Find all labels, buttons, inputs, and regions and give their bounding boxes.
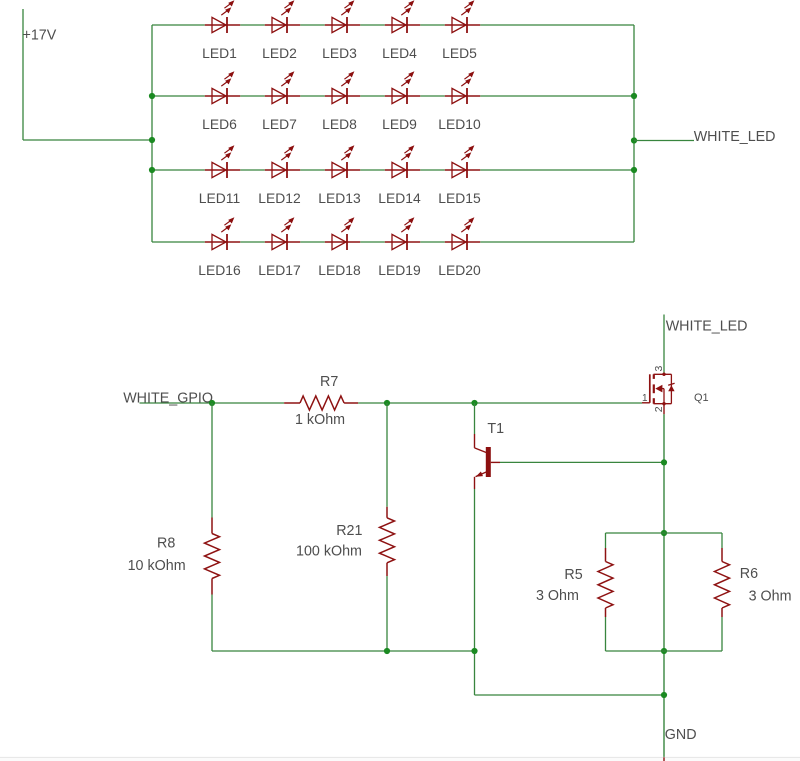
LED LED19 <box>385 217 420 250</box>
junction gate line/T1 collector <box>471 400 477 406</box>
wire GND below edge <box>663 757 665 761</box>
wire R6 top lead <box>721 533 723 548</box>
wire row 2 gap 4 <box>420 95 445 97</box>
svg-text:2: 2 <box>653 406 665 412</box>
junction left bus row3 <box>149 167 155 173</box>
bottom window edge <box>0 758 800 761</box>
wire row 1 gap 3 <box>360 24 385 26</box>
resistor R6 <box>721 548 723 617</box>
resistor R5 <box>605 548 607 617</box>
resistor R7 <box>284 402 358 404</box>
svg-text:Q1: Q1 <box>694 392 709 404</box>
resistor R5 body <box>598 562 613 609</box>
svg-text:LED8: LED8 <box>322 116 357 132</box>
svg-text:LED19: LED19 <box>378 262 421 278</box>
wire R8 bottom <box>211 595 213 652</box>
LED LED10 <box>445 71 480 104</box>
wire bottom rail left <box>212 650 475 652</box>
svg-text:LED17: LED17 <box>258 262 301 278</box>
junction left bus row2 <box>149 93 155 99</box>
svg-text:R8: R8 <box>157 535 175 551</box>
wire row 2 gap 3 <box>360 95 385 97</box>
wire row 1 gap 4 <box>420 24 445 26</box>
junction GND node <box>661 692 667 698</box>
svg-text:1 kOhm: 1 kOhm <box>295 412 345 428</box>
svg-text:LED1: LED1 <box>202 45 237 61</box>
LED LED3 <box>325 0 360 33</box>
resistor R8 body <box>205 534 220 579</box>
svg-text:WHITE_LED: WHITE_LED <box>694 129 776 145</box>
LED LED1 <box>205 0 240 33</box>
wire emitter to GND node <box>475 694 665 696</box>
wire row 2 gap 1 <box>240 95 265 97</box>
resistor R7 body <box>300 396 344 410</box>
wire row 4 gap 2 <box>300 241 325 243</box>
wire Q1 source down to GND <box>663 404 665 415</box>
wire WHITE_LED to Q1 drain <box>663 315 665 373</box>
wire row 3 gap 1 <box>240 169 265 171</box>
wire R6 bottom lead <box>721 617 723 651</box>
LED LED13 <box>325 145 360 178</box>
svg-text:LED4: LED4 <box>382 45 417 61</box>
wire WHITE_LED stub <box>634 140 694 142</box>
transistor Q1 (P-MOSFET) <box>642 373 675 406</box>
svg-text:LED16: LED16 <box>198 262 241 278</box>
wire T1 base to sense node <box>500 461 664 463</box>
junction sense node <box>661 459 667 465</box>
LED LED15 <box>445 145 480 178</box>
svg-text:LED11: LED11 <box>199 190 241 206</box>
wire R5 bottom lead <box>605 617 607 651</box>
svg-text:3: 3 <box>653 366 665 372</box>
svg-text:T1: T1 <box>487 421 504 437</box>
LED LED4 <box>385 0 420 33</box>
svg-text:LED6: LED6 <box>202 116 237 132</box>
LED LED17 <box>265 217 300 250</box>
wire row 2 to right bus <box>480 95 634 97</box>
wire R7 to Q1 gate <box>358 402 642 404</box>
svg-text:LED15: LED15 <box>438 190 481 206</box>
wire row 2 from left bus <box>152 95 205 97</box>
svg-text:LED2: LED2 <box>262 45 297 61</box>
wire R5 top lead <box>605 533 607 548</box>
svg-text:R7: R7 <box>320 374 338 390</box>
resistor R8 <box>211 518 213 595</box>
wire row 1 gap 1 <box>240 24 265 26</box>
svg-text:1: 1 <box>642 393 648 404</box>
wire T1 collector <box>474 403 476 434</box>
LED LED18 <box>325 217 360 250</box>
LED LED16 <box>205 217 240 250</box>
wire row 3 to right bus <box>480 169 634 171</box>
wire row 1 gap 2 <box>300 24 325 26</box>
wire row 3 from left bus <box>152 169 205 171</box>
svg-text:R6: R6 <box>740 566 758 582</box>
transistor T1 (NPN) <box>475 434 501 489</box>
svg-text:LED9: LED9 <box>382 116 417 132</box>
svg-text:LED3: LED3 <box>322 45 357 61</box>
svg-text:LED20: LED20 <box>438 262 481 278</box>
svg-text:LED10: LED10 <box>438 116 481 132</box>
svg-text:+17V: +17V <box>23 28 57 44</box>
svg-text:3 Ohm: 3 Ohm <box>536 588 579 604</box>
junction right bus row2 <box>631 93 637 99</box>
wire row 4 from left bus <box>152 241 205 243</box>
junction R5R6 bottom <box>661 648 667 654</box>
junction WHITE_GPIO/R8 <box>209 400 215 406</box>
wire R5R6 top <box>606 532 723 534</box>
svg-text:10 kOhm: 10 kOhm <box>128 558 186 574</box>
wire +17V feed horizontal <box>23 139 152 141</box>
svg-text:3 Ohm: 3 Ohm <box>749 589 792 605</box>
wire R21 top <box>386 403 388 507</box>
wire R8 top <box>211 403 213 518</box>
resistor R21 <box>386 507 388 576</box>
svg-text:R5: R5 <box>564 567 582 583</box>
wire right bus <box>633 25 635 242</box>
LED LED14 <box>385 145 420 178</box>
junction R5R6 top <box>661 530 667 536</box>
junction gate line/R21 <box>384 400 390 406</box>
wire R5R6 bottom <box>606 650 723 652</box>
svg-text:WHITE_LED: WHITE_LED <box>666 319 748 335</box>
wire WHITE_GPIO to R7 <box>140 402 285 404</box>
wire row 4 gap 3 <box>360 241 385 243</box>
wire left bus <box>151 25 153 242</box>
wire row 1 to right bus <box>480 24 634 26</box>
svg-text:LED18: LED18 <box>318 262 361 278</box>
LED LED7 <box>265 71 300 104</box>
junction left bus supply <box>149 137 155 143</box>
svg-text:LED13: LED13 <box>318 190 361 206</box>
wire row 2 gap 2 <box>300 95 325 97</box>
wire row 4 to right bus <box>480 241 634 243</box>
wire row 3 gap 4 <box>420 169 445 171</box>
wire row 3 gap 2 <box>300 169 325 171</box>
junction bottom R21 <box>384 648 390 654</box>
svg-text:LED5: LED5 <box>442 45 477 61</box>
LED LED5 <box>445 0 480 33</box>
LED LED8 <box>325 71 360 104</box>
wire row 1 from left bus <box>152 24 205 26</box>
junction bottom T1 emitter <box>471 648 477 654</box>
LED LED20 <box>445 217 480 250</box>
wire +17V vertical <box>22 9 24 140</box>
svg-text:R21: R21 <box>336 523 362 539</box>
svg-text:WHITE_GPIO: WHITE_GPIO <box>123 391 213 407</box>
LED LED2 <box>265 0 300 33</box>
LED LED11 <box>205 145 240 178</box>
resistor R6 body <box>715 562 730 609</box>
junction right bus WHITE_LED <box>631 137 637 143</box>
wire row 4 gap 1 <box>240 241 265 243</box>
wire row 4 gap 4 <box>420 241 445 243</box>
svg-text:100 kOhm: 100 kOhm <box>296 544 362 560</box>
wire row 3 gap 3 <box>360 169 385 171</box>
junction right bus row3 <box>631 167 637 173</box>
svg-text:LED12: LED12 <box>258 190 301 206</box>
wire T1 emitter down <box>474 489 476 695</box>
LED LED6 <box>205 71 240 104</box>
svg-text:LED7: LED7 <box>262 116 297 132</box>
svg-text:LED14: LED14 <box>378 190 421 206</box>
svg-text:GND: GND <box>665 727 697 743</box>
wire R21 bottom <box>386 576 388 651</box>
LED LED9 <box>385 71 420 104</box>
LED LED12 <box>265 145 300 178</box>
resistor R21 body <box>380 518 395 563</box>
